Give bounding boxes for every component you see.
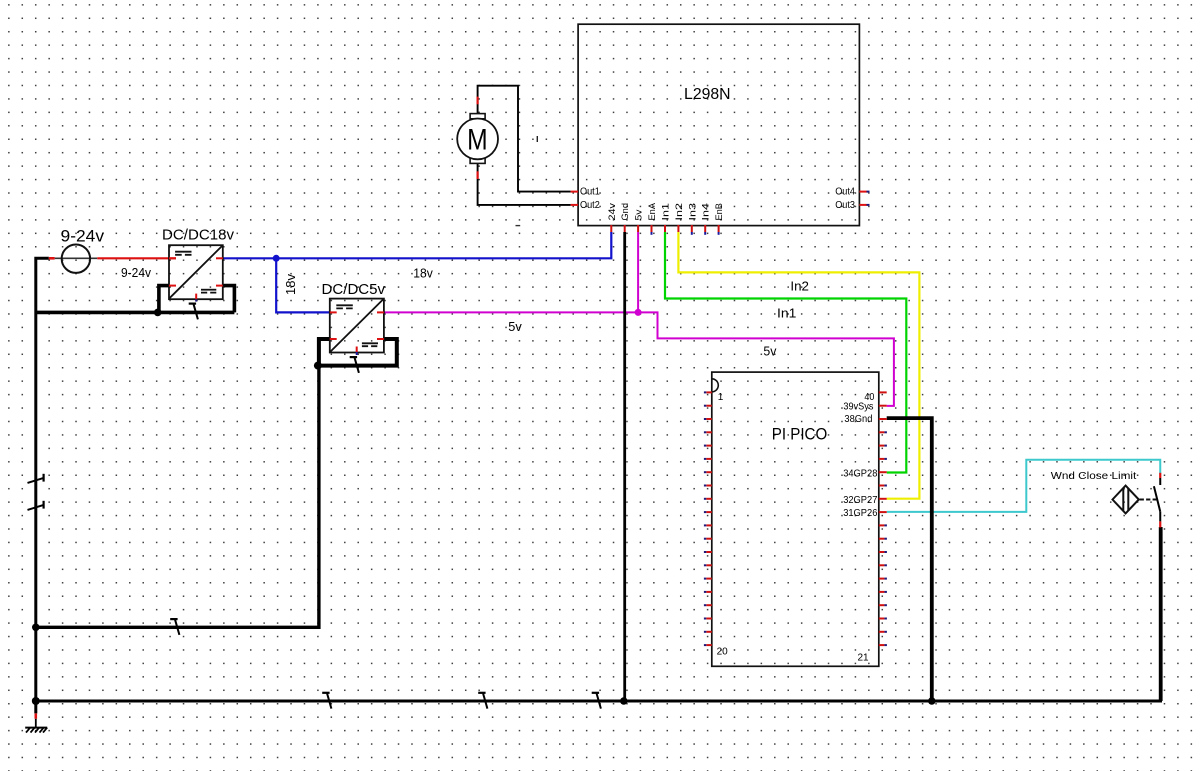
slash mark on bottom bus 2 — [478, 692, 485, 694]
node: DC/DC5v U / down run — [314, 362, 322, 370]
svg-text:9-24v: 9-24v — [61, 227, 105, 245]
slash mark on mid gnd wire — [170, 618, 177, 620]
svg-text:DC/DC5v: DC/DC5v — [322, 281, 386, 298]
svg-text:EnA: EnA — [647, 202, 658, 220]
svg-text:In4: In4 — [701, 203, 712, 221]
svg-text:38Gnd: 38Gnd — [844, 414, 872, 425]
wire: red 9-24v source left stub — [49, 257, 55, 260]
svg-text:5v: 5v — [634, 209, 645, 220]
svg-text:20: 20 — [717, 646, 729, 657]
wire: blue 18v branch to DC/DC5v input — [276, 258, 330, 312]
svg-text:In3: In3 — [687, 203, 698, 221]
wire: magenta 5v DC/DC5v output to L298N 5v pin — [384, 311, 638, 313]
wire: blue 18v L298N 24v pin down and left to DC/DC18v — [223, 232, 612, 258]
wire: bottom ground bus — [36, 700, 1162, 703]
slash mark on left bus 1 — [42, 474, 44, 482]
svg-text:In2: In2 — [790, 280, 809, 294]
L298N bottom pin stubs — [611, 225, 718, 232]
svg-text:Out4: Out4 — [835, 187, 855, 198]
motor M1 — [457, 97, 498, 179]
wire: green In1 L298N to PICO 34GP28 — [665, 232, 906, 473]
L298N bottom pin labels — [607, 202, 725, 220]
wire: red 9-24v to DC/DC18v — [97, 257, 176, 259]
PI PICO right pins 40-21 — [879, 392, 887, 645]
svg-text:DC/DC18v: DC/DC18v — [162, 226, 234, 243]
switch lever — [1154, 486, 1160, 511]
node: left bus / bottom bus — [32, 697, 40, 705]
svg-text:Out3: Out3 — [835, 200, 855, 211]
wire labels — [284, 266, 809, 358]
IC U4 PI PICO — [712, 372, 879, 666]
stray dash below L298N — [516, 225, 521, 227]
svg-text:Out1: Out1 — [580, 187, 600, 198]
L298N unconnected pin ticks (EnA In3 In4 EnB) — [652, 232, 719, 235]
switch bottom contact stub — [1159, 521, 1161, 527]
switch top contact stub — [1159, 473, 1161, 478]
svg-text:L298N: L298N — [684, 86, 731, 103]
wire: DC/DC5v ground U-link — [319, 339, 397, 366]
wire: magenta 5v branch to PICO 39vSys — [638, 312, 894, 406]
svg-text:In1: In1 — [661, 203, 672, 221]
svg-text:In2: In2 — [674, 203, 685, 221]
node: DC/DC18v U / bus — [154, 309, 162, 317]
svg-text:34GP28: 34GP28 — [843, 468, 878, 479]
svg-text:5v: 5v — [508, 320, 522, 334]
svg-text:9-24v: 9-24v — [121, 266, 152, 280]
svg-text:Out2: Out2 — [580, 200, 600, 211]
svg-text:18v: 18v — [413, 266, 433, 280]
wire: switch bottom vertical to bus — [1159, 527, 1163, 701]
svg-text:Gnd: Gnd — [620, 203, 631, 221]
svg-text:1: 1 — [718, 392, 724, 403]
slash mark below DC/DC18v — [189, 303, 196, 305]
wire: L298N Gnd pin vertical to bottom bus — [623, 232, 626, 701]
slash mark below DC/DC5v — [350, 356, 357, 358]
wire: cyan PICO 31GP26 to limit switch — [887, 460, 1161, 512]
slash mark on bottom bus 1 — [322, 692, 329, 694]
node: blue junction — [273, 255, 280, 262]
stray tick near motor — [536, 136, 538, 142]
node: left bus / mid gnd — [32, 624, 40, 632]
svg-text:18v: 18v — [284, 273, 298, 295]
svg-text:EnB: EnB — [714, 203, 725, 221]
wire: PICO 38Gnd to right vertical to bottom bus — [887, 418, 932, 701]
svg-text:5v: 5v — [763, 344, 777, 358]
svg-text:In1: In1 — [777, 307, 796, 321]
svg-text:32GP27: 32GP27 — [843, 495, 878, 506]
svg-text:24v: 24v — [607, 203, 618, 221]
wire: yellow In2 L298N to PICO 32GP27 — [678, 232, 919, 499]
svg-text:M: M — [467, 123, 488, 156]
IC U1 L298N — [571, 24, 870, 225]
slash mark on bottom bus 3 — [592, 692, 599, 694]
node: L298N gnd / bottom bus — [620, 697, 628, 705]
svg-text:21: 21 — [857, 653, 869, 664]
wire: mid horizontal ground from DC/DC5v down-run — [36, 366, 319, 628]
converter U2 DC/DC18v — [162, 226, 234, 301]
actuator diamond — [1113, 486, 1139, 514]
switch S1 Wnd Close Limit — [1051, 470, 1161, 528]
wire: left vertical ground bus from source down — [36, 258, 49, 713]
wire: motor top to L298N Out1 — [478, 86, 571, 192]
wire: DC/DC18v ground U-link — [35, 286, 235, 313]
slash mark on left bus 2 — [42, 501, 44, 509]
wire: thin line through source circle — [55, 257, 98, 259]
svg-text:39vSys: 39vSys — [843, 401, 873, 412]
wire: motor bottom to L298N Out2 — [478, 163, 571, 205]
node: magenta junction — [635, 309, 642, 316]
svg-text:Wnd Close Limit: Wnd Close Limit — [1051, 470, 1137, 482]
svg-text:31GP26: 31GP26 — [843, 508, 878, 519]
PI PICO left pins 1-20 — [704, 392, 712, 645]
svg-text:PI PICO: PI PICO — [772, 426, 828, 444]
converter U3 DC/DC5v — [322, 281, 386, 355]
dashed actuator link — [1140, 499, 1157, 501]
ground symbol — [25, 713, 47, 732]
node: PICO gnd / bottom bus — [928, 697, 936, 705]
